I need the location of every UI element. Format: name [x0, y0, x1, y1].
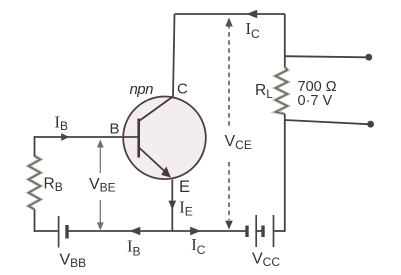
battery VCC long plate left [255, 215, 257, 247]
svg-text:C: C [177, 81, 188, 98]
arrow IC on bottom rail (pointing right) [190, 227, 201, 236]
wire output terminal 2 [285, 120, 369, 124]
svg-text:VCE: VCE [225, 133, 252, 152]
arrow IE on emitter wire (pointing down) [168, 201, 176, 210]
resistor RL zigzag [276, 67, 288, 114]
wire left vertical upper [34, 136, 36, 156]
wire VCC right stub [274, 230, 285, 232]
svg-text:B: B [110, 121, 120, 138]
terminal dot 2 [367, 121, 374, 128]
wire base horizontal [35, 136, 138, 138]
transistor Q1 base bar [137, 119, 140, 158]
VBE arrowhead down [97, 222, 104, 230]
VBE arrowhead up [97, 140, 104, 148]
VCE dashed line upper [228, 24, 230, 126]
svg-text:IE: IE [179, 198, 193, 219]
transistor Q1 collector diagonal [139, 97, 173, 122]
resistor RB zigzag [29, 156, 41, 209]
arrow IB on bottom rail (pointing left) [130, 227, 141, 236]
svg-text:IC: IC [191, 235, 206, 257]
battery VCC short plate left [245, 226, 248, 238]
arrow IC on top rail (pointing left) [246, 10, 257, 19]
svg-text:VCC: VCC [252, 251, 280, 270]
svg-text:IC: IC [246, 19, 261, 41]
wire right vertical upper [284, 14, 286, 67]
transistor Q1 emitter arrowhead [161, 166, 171, 177]
svg-text:npn: npn [130, 81, 154, 98]
battery VBB short plate [65, 225, 68, 239]
terminal dot 1 [365, 54, 372, 61]
VCE arrowhead down [225, 221, 233, 230]
wire left vertical lower [34, 209, 36, 232]
svg-text:RL: RL [255, 82, 273, 101]
battery VCC inner connector [257, 230, 262, 232]
svg-text:VBE: VBE [89, 176, 116, 195]
svg-text:VBB: VBB [60, 252, 87, 271]
svg-text:0·7 V: 0·7 V [298, 93, 333, 109]
battery VCC long plate right [273, 215, 275, 247]
svg-text:IB: IB [127, 236, 141, 258]
svg-text:E: E [179, 178, 190, 196]
battery VCC short plate right [261, 226, 264, 238]
wire bottom rail [69, 230, 246, 232]
VBE measure line lower [99, 200, 101, 225]
transistor Q1 emitter diagonal [139, 148, 166, 173]
wire bottom left [34, 230, 58, 232]
arrow IB on base wire (pointing right) [61, 133, 69, 141]
transistor Q1 body circle [123, 97, 206, 180]
wire right vertical lower [284, 114, 286, 232]
battery VBB long plate [58, 216, 60, 248]
VCE arrowhead up [225, 18, 233, 27]
wire top rail [175, 13, 286, 15]
wire collector vertical [173, 14, 175, 97]
wire emitter vertical [171, 180, 173, 232]
VBE measure line upper [99, 145, 101, 173]
svg-text:RB: RB [44, 176, 63, 195]
svg-text:IB: IB [55, 112, 69, 133]
wire output terminal 1 [285, 56, 366, 57]
VCE dashed line lower [228, 162, 230, 220]
